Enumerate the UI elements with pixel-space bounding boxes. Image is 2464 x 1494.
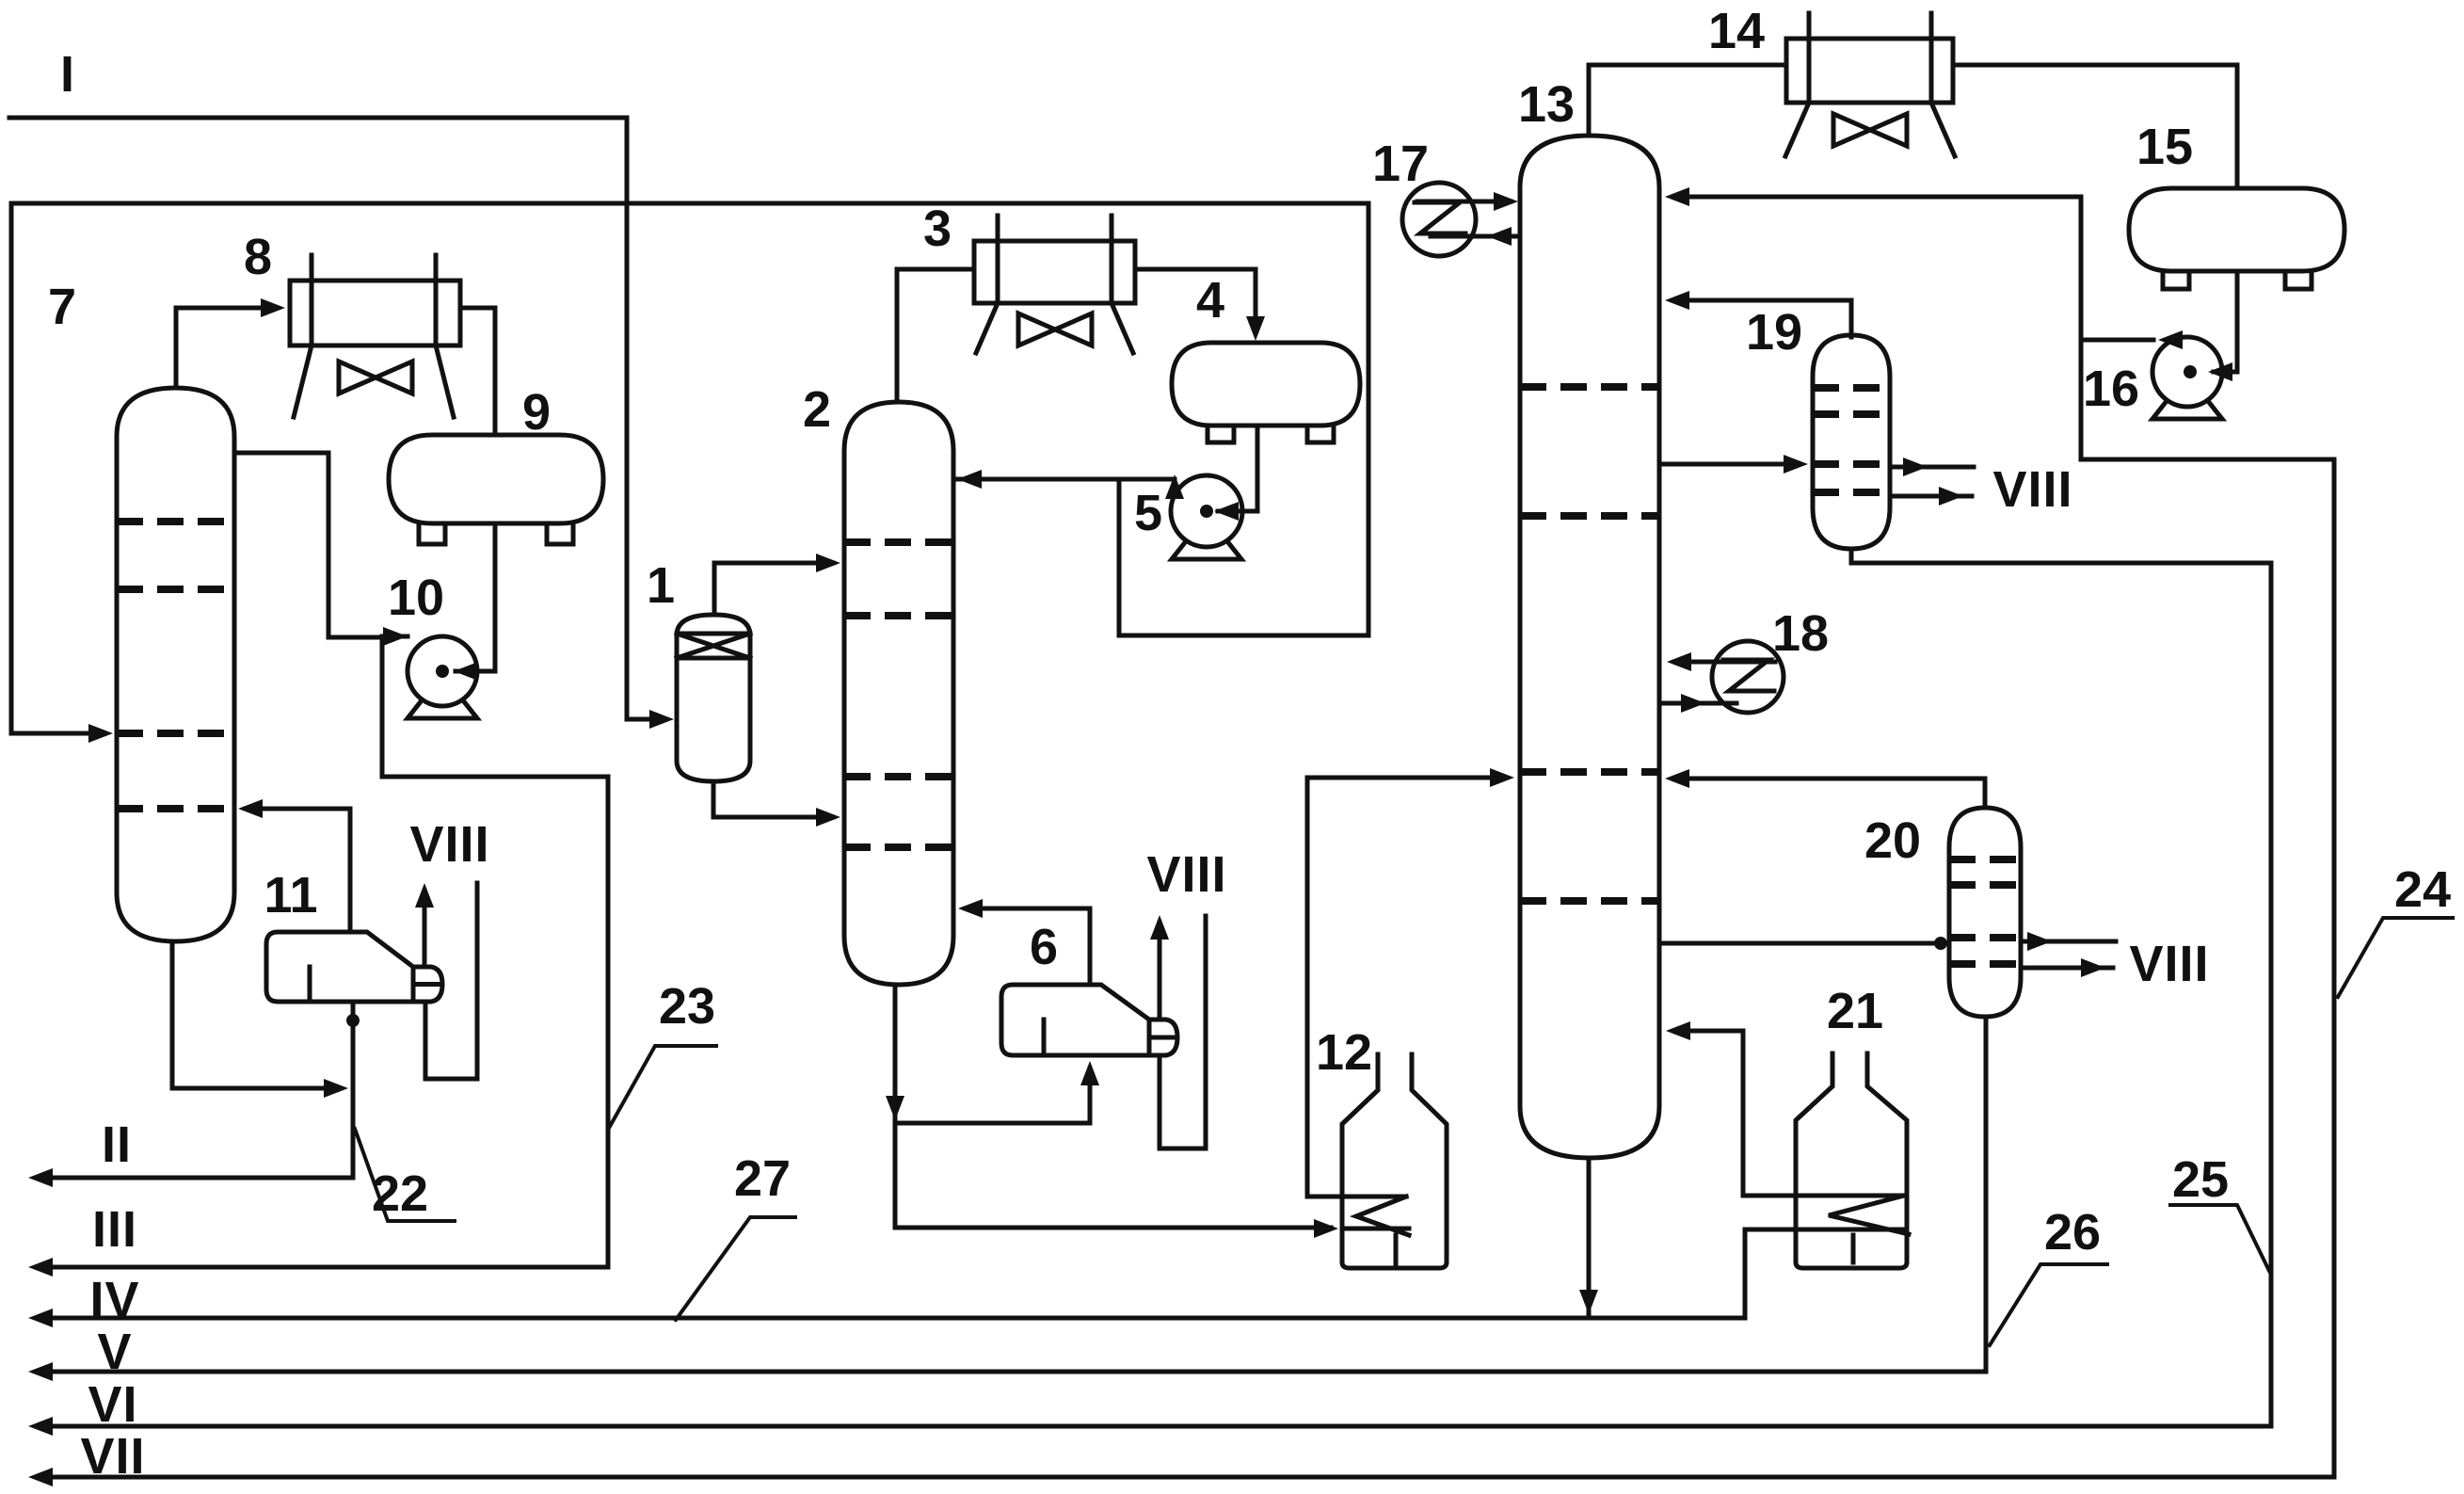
wire furnace 6 VIII supply loop <box>1160 916 1206 1149</box>
svg-text:12: 12 <box>1316 1024 1372 1081</box>
svg-text:VIII: VIII <box>2129 936 2209 992</box>
wire vessel 19 VIII stub upper <box>1890 465 1974 470</box>
wire vessel 1 bottom to column 2 <box>713 781 833 817</box>
wire column 7 bottoms to furnace 11 <box>172 941 339 1088</box>
wire drum 15 outlet to pump 16 <box>2214 271 2237 372</box>
svg-text:18: 18 <box>1772 605 1829 662</box>
svg-text:15: 15 <box>2136 119 2193 175</box>
svg-text:27: 27 <box>734 1150 791 1207</box>
svg-text:IV: IV <box>89 1272 139 1328</box>
svg-text:VIII: VIII <box>409 816 489 873</box>
wire heater 12 coil zigzag <box>1342 1197 1409 1265</box>
svg-text:V: V <box>97 1324 132 1380</box>
wire heater 21 coil feed riser from IV <box>1745 1229 1907 1318</box>
wire pump 16 discharge riser <box>2081 197 2153 459</box>
wire column 2 bottoms line <box>895 985 1331 1228</box>
wire heater 12 return to column 13 <box>1307 778 1505 1197</box>
furnace 11 <box>266 932 442 1002</box>
wire pump 10 discharge to stream III <box>38 636 608 1267</box>
leader line 26 <box>1990 1264 2107 1345</box>
column 13 <box>1520 136 1659 1158</box>
wire vessel 20 VIII stub lower <box>2021 966 2113 971</box>
stripper vessel 20 <box>1949 808 2021 1017</box>
wire stream IV line <box>38 1316 1745 1321</box>
leader line 24 <box>2338 918 2453 997</box>
svg-text:11: 11 <box>264 867 317 924</box>
svg-text:10: 10 <box>388 570 444 626</box>
drum 4 feet <box>1208 426 1234 442</box>
svg-text:7: 7 <box>48 279 76 335</box>
svg-text:III: III <box>92 1201 137 1258</box>
wire heater 21 coil return to column 13 <box>1675 1031 1904 1196</box>
vessel 19 trays dashed <box>1813 384 1890 392</box>
drum 15 feet <box>2163 271 2189 289</box>
air cooler 3 <box>974 241 1135 303</box>
wire reflux into column 13 from pump 16 <box>1674 195 2081 200</box>
wire reflux from pump 5 to column 2 <box>957 477 1175 482</box>
wire pump 5 discharge loop to column 7 feed <box>11 203 1368 733</box>
svg-text:19: 19 <box>1746 304 1802 361</box>
pump 10 <box>408 636 477 706</box>
wire stream I feed line into reactor 1 <box>9 118 664 719</box>
heat exchanger 18 <box>1712 641 1784 713</box>
column 2 trays dashed <box>844 538 953 546</box>
wire stream VII from pump 16 <box>38 459 2334 1477</box>
wire column 13 overhead to cooler 14 <box>1589 65 1784 136</box>
svg-text:17: 17 <box>1372 136 1429 192</box>
wire cooler 8 outlet to drum 9 <box>460 308 495 433</box>
leader line 22 <box>355 1129 455 1221</box>
air cooler 14 <box>1786 39 1953 103</box>
pump 16 <box>2152 337 2222 407</box>
heat exchanger 17 <box>1402 183 1476 256</box>
svg-text:26: 26 <box>2044 1204 2101 1261</box>
wire column 7 overhead to cooler 8 <box>176 308 276 388</box>
reflux drum 4 <box>1172 343 1360 426</box>
wire cooler 14 outlet to drum 15 <box>1953 65 2237 186</box>
svg-text:VII: VII <box>80 1428 145 1485</box>
pump 5 <box>1171 475 1242 547</box>
svg-text:5: 5 <box>1134 485 1162 541</box>
furnace 6 <box>1001 985 1177 1055</box>
svg-text:2: 2 <box>803 381 831 438</box>
svg-text:1: 1 <box>647 557 675 614</box>
column 7 <box>117 388 234 941</box>
leader line 25 <box>2170 1205 2269 1271</box>
column 7 trays dashed <box>117 518 234 525</box>
reflux drum 15 <box>2129 188 2344 271</box>
exchanger 18 stubs to column 13 <box>1674 660 1775 665</box>
wire furnace 11 return to column 7 <box>246 809 350 932</box>
wire column 7 side draw to pump 10 <box>234 453 382 637</box>
svg-text:14: 14 <box>1708 3 1765 59</box>
wire furnace 11 flue VIII outlet <box>423 891 427 967</box>
svg-text:25: 25 <box>2172 1151 2229 1208</box>
wire drum 9 outlet to pump 10 <box>456 523 495 671</box>
svg-text:24: 24 <box>2394 861 2451 918</box>
wire furnace 11 VIII supply loop <box>425 883 477 1079</box>
svg-text:I: I <box>60 46 75 103</box>
column 13 trays dashed <box>1520 383 1659 391</box>
svg-text:VIII: VIII <box>1992 461 2072 518</box>
column 2 <box>844 402 953 985</box>
svg-text:13: 13 <box>1518 76 1575 133</box>
svg-text:9: 9 <box>522 384 551 441</box>
wire vessel 20 VIII stub upper <box>2021 940 2116 944</box>
leader line 23 <box>608 1046 716 1130</box>
stripper vessel 19 <box>1813 335 1890 549</box>
vessel 20 trays dashed <box>1949 856 2021 863</box>
svg-text:21: 21 <box>1827 983 1883 1039</box>
wire vessel 20 top return to column 13 <box>1674 779 1985 808</box>
svg-text:II: II <box>102 1116 132 1173</box>
leader line 27 <box>676 1217 795 1320</box>
svg-text:16: 16 <box>2083 361 2139 417</box>
reflux drum 9 <box>389 435 603 523</box>
heater 21 bottle <box>1796 1053 1907 1268</box>
svg-text:3: 3 <box>923 201 952 257</box>
svg-text:6: 6 <box>1030 919 1058 975</box>
svg-text:VI: VI <box>88 1376 137 1433</box>
wire furnace 11 drain to stream II <box>38 1002 353 1178</box>
wire furnace 6 return to column 2 <box>966 908 1090 985</box>
wire cooler 3 outlet to drum 4 <box>1135 269 1256 331</box>
svg-text:22: 22 <box>372 1165 428 1222</box>
wire heater 21 coil zigzag <box>1829 1196 1909 1262</box>
heater 12 bottle <box>1342 1054 1447 1268</box>
wire vessel 19 VIII stub lower <box>1890 494 1972 499</box>
wire vessel 20 bottoms to stream V <box>38 1017 1986 1372</box>
wire column 2 overhead to cooler 3 <box>897 269 972 402</box>
drum 9 feet <box>419 523 445 544</box>
wire furnace 6 flue VIII outlet <box>1158 923 1162 1020</box>
wire column 13 side draw to vessel 19 <box>1662 462 1799 467</box>
svg-text:4: 4 <box>1196 272 1224 329</box>
wire column 13 bottoms outlet <box>1587 1158 1592 1314</box>
air cooler 8 <box>290 281 460 345</box>
reactor vessel 1 with X packing <box>677 615 750 781</box>
exchanger 17 stubs to column 13 <box>1417 200 1511 204</box>
wire column 2 bottoms branch to furnace 6 <box>895 1068 1090 1123</box>
svg-text:VIII: VIII <box>1146 846 1226 903</box>
svg-text:8: 8 <box>244 229 272 285</box>
svg-text:23: 23 <box>659 978 715 1035</box>
wire vessel 1 top to column 2 <box>714 563 833 615</box>
wire column 13 side draw to vessel 20 <box>1659 941 1949 946</box>
svg-text:20: 20 <box>1864 812 1921 869</box>
wire vessel 19 bottoms to stream VI <box>38 549 2271 1426</box>
wire pump 5 suction from drum 4 <box>1218 426 1257 511</box>
wire vessel 19 top return to column 13 <box>1674 300 1851 337</box>
